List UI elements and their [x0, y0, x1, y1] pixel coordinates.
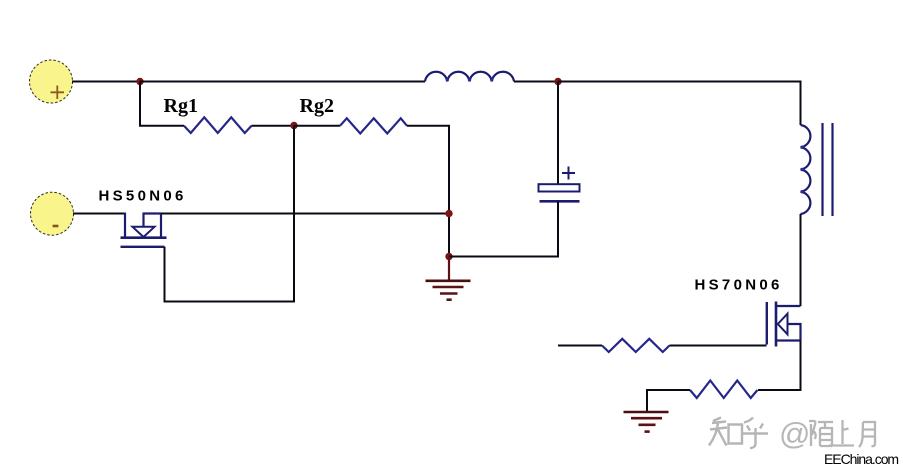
wire inductor L1 to node B	[514, 81, 558, 83]
transformer T1 core lines	[823, 123, 833, 216]
transformer T1 primary winding	[801, 125, 811, 214]
node A junction dot	[136, 78, 143, 85]
wire node B down to capacitor C1	[557, 82, 559, 185]
svg-text:@: @	[779, 416, 810, 451]
wire node A down to resistor Rg1	[140, 82, 184, 126]
capacitor C1 polarized	[539, 167, 580, 202]
wire capacitor C1 to node E	[449, 201, 558, 256]
wire Q1 source side to node D	[161, 213, 449, 215]
ground G1	[426, 257, 471, 300]
wire resistor R1 to Q2 gate	[670, 345, 767, 347]
svg-text:Rg2: Rg2	[300, 95, 334, 117]
wire transformer T1 to transistor Q2 drain	[800, 214, 802, 306]
inductor L1	[425, 72, 514, 82]
watermark zhihu text	[709, 418, 768, 449]
wire Q2 source down and left to resistor R2	[758, 341, 801, 391]
node D junction dot	[445, 210, 452, 217]
terminal + (positive supply)	[30, 60, 73, 103]
svg-text:HS50N06: HS50N06	[99, 188, 187, 205]
wire node C to resistor Rg2	[294, 125, 340, 127]
transistor Q1 HS50N06	[121, 213, 167, 247]
wire Q1 gate down and right up to node C	[165, 126, 295, 302]
svg-text:EEChina.com: EEChina.com	[824, 451, 898, 467]
resistor Rg1	[184, 117, 252, 133]
terminal - (negative supply)	[31, 192, 74, 235]
svg-text:HS70N06: HS70N06	[695, 277, 783, 294]
resistor Rg2	[340, 118, 407, 133]
ground G2	[624, 412, 669, 432]
resistor R1 gate	[602, 339, 670, 352]
inductor L1 cusp knobs	[446, 78, 494, 81]
resistor R2 source	[690, 381, 758, 399]
wire node A to inductor L1	[140, 81, 425, 83]
svg-text:Rg1: Rg1	[164, 95, 198, 117]
wire gate drive to resistor R1	[558, 345, 602, 347]
transformer T1 cusp knobs	[801, 146, 804, 194]
watermark moshangyue glyphs	[809, 420, 875, 447]
node B junction dot	[554, 78, 561, 85]
wire Rg1 to node C	[252, 125, 295, 127]
wire - terminal to transistor Q1 drain	[73, 213, 125, 215]
wire from + terminal to node A	[72, 81, 140, 83]
node E junction dot	[445, 253, 452, 260]
node C junction dot	[290, 122, 297, 129]
wire node B to top-right corner and down to transformer T1	[558, 82, 801, 126]
wire Rg2 to right vertical bus	[407, 126, 449, 257]
wire resistor R2 to ground G2	[647, 390, 690, 411]
transistor Q2 HS70N06	[767, 302, 801, 347]
